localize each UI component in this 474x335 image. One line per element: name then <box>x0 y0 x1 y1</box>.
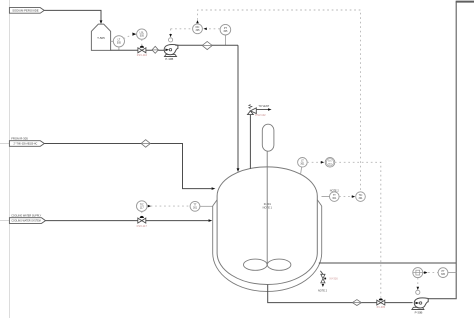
svg-text:XV-316: XV-316 <box>329 277 338 281</box>
drain control valve XV-305 <box>377 298 386 308</box>
inline strainer (diamond) on R-305 line <box>141 140 150 148</box>
instrument TIC-301 <box>356 192 366 202</box>
R-305 feed pipe to reactor <box>44 144 211 189</box>
feed pipe down into reactor <box>237 45 240 172</box>
inline strainer (diamond) on drain <box>352 300 361 306</box>
instrument HS-30B <box>413 268 423 278</box>
signal TT-301b to TIC-301 <box>339 195 355 198</box>
tank T-505 <box>91 24 110 50</box>
faint pipe stub left of flag COOLING WATER SUPPLY <box>0 220 9 222</box>
svg-text:117: 117 <box>140 206 144 209</box>
svg-text:FSV-116: FSV-116 <box>137 53 148 57</box>
svg-text:NOTE 2: NOTE 2 <box>318 290 328 293</box>
cooling water pipe to reactor jacket <box>46 220 209 222</box>
agitator impeller <box>244 259 291 270</box>
signal LT-505 to LSL (dashed diagonal) <box>124 35 132 39</box>
relief valve PSV-102 <box>248 105 272 169</box>
svg-text:301: 301 <box>300 163 305 166</box>
signal LIC-301 to drain valve (dashed right and down) <box>335 162 381 297</box>
signal TIC-117 to TT (dashed with arrow) <box>148 205 190 208</box>
svg-text:PSV-102: PSV-102 <box>255 113 266 117</box>
signal TIC-117 down to valve FSV-117 <box>141 211 143 215</box>
svg-text:301: 301 <box>193 207 198 210</box>
signal pump riser to FIC-305 <box>171 28 193 30</box>
pump P-10B start signal (arrow + motor dot) <box>169 29 173 42</box>
svg-text:301: 301 <box>332 197 337 200</box>
reactor jacket <box>213 200 322 292</box>
signal LT-301 to LIC-301 <box>307 161 324 164</box>
svg-text:305: 305 <box>196 29 201 32</box>
instrument LIC-301 (shared display) <box>325 158 335 168</box>
signal HS to PT (dot + dashed) <box>424 271 438 274</box>
svg-text:505: 505 <box>117 42 122 45</box>
agitator motor <box>262 124 274 151</box>
interlock arrow into LSL <box>132 33 136 36</box>
svg-text:FSV-117: FSV-117 <box>137 224 148 228</box>
instrument PT-30B <box>438 268 456 278</box>
signal LSL to valve FSV-116 <box>141 39 143 45</box>
svg-text:505: 505 <box>140 34 145 37</box>
left margin line <box>9 0 11 318</box>
faint pipe stub left of flag FROM R-305 <box>0 143 9 145</box>
reactor R-301 vessel <box>217 167 317 285</box>
svg-text:305: 305 <box>223 30 228 33</box>
svg-text:FROM R-305: FROM R-305 <box>11 137 28 141</box>
instrument LT-301 <box>298 158 308 175</box>
signal FIC-305 up over to TIC-301 (dashed path) <box>198 10 361 192</box>
inline strainer (diamond) on tank outlet <box>152 46 158 53</box>
svg-text:COOLING WATER SUPPLY: COOLING WATER SUPPLY <box>11 214 41 217</box>
off-page connector flag SODIUM PEROXIDE <box>9 8 44 14</box>
instrument PI-305 <box>220 24 231 45</box>
svg-text:XV-305: XV-305 <box>377 305 386 309</box>
signal arrow up from FIC-305 <box>196 20 199 23</box>
svg-text:P-30B: P-30B <box>415 310 423 314</box>
svg-text:LIC: LIC <box>328 161 332 163</box>
off-page connector flag FROM R-305 <box>9 137 44 147</box>
instrument LSL-505 <box>137 29 147 39</box>
inline strainer (diamond) on discharge <box>202 42 212 50</box>
svg-text:305: 305 <box>441 273 446 276</box>
riser pipe up right edge and off-page <box>428 2 456 299</box>
signal PI-305 to FIC-305 (dashed with arrow) <box>203 28 219 31</box>
level transmitter LT-505 <box>111 36 125 51</box>
agitator shaft <box>266 151 268 265</box>
instrument TT-301a <box>190 201 213 211</box>
jacket return pipe to riser <box>319 262 456 264</box>
pipe tank T-505 to pump P-10B <box>111 49 167 51</box>
svg-text:301: 301 <box>359 197 364 200</box>
svg-text:T-505: T-505 <box>97 36 105 40</box>
jacket drain valve <box>318 271 338 293</box>
pump P-30B <box>412 298 428 314</box>
svg-text:TO VENT: TO VENT <box>258 105 269 108</box>
instrument FIC-305 <box>193 24 203 34</box>
pump P-30B start signal (arrow + motor dot) <box>416 278 420 295</box>
vessel labels <box>263 202 273 209</box>
pipe from flag to tank T-505 <box>44 10 101 20</box>
svg-text:P-10B: P-10B <box>165 57 173 61</box>
svg-text:SODIUM PEROXIDE: SODIUM PEROXIDE <box>12 8 39 12</box>
instrument TIC-117 <box>137 201 148 212</box>
pump P-10B <box>164 45 178 61</box>
valve FSV-116 <box>137 46 148 57</box>
off-page connector flag COOLING WATER SUPPLY <box>9 214 45 223</box>
valve FSV-117 <box>137 216 148 228</box>
vessel drain pipe <box>268 285 413 303</box>
instrument TT-301b with NOTE 2 <box>322 190 340 202</box>
svg-text:2"-TNK-305-AB150-HC: 2"-TNK-305-AB150-HC <box>14 143 38 146</box>
svg-text:COOLING WATER SYSTEM: COOLING WATER SYSTEM <box>11 220 40 223</box>
pump P-10B discharge pipe <box>175 44 238 46</box>
